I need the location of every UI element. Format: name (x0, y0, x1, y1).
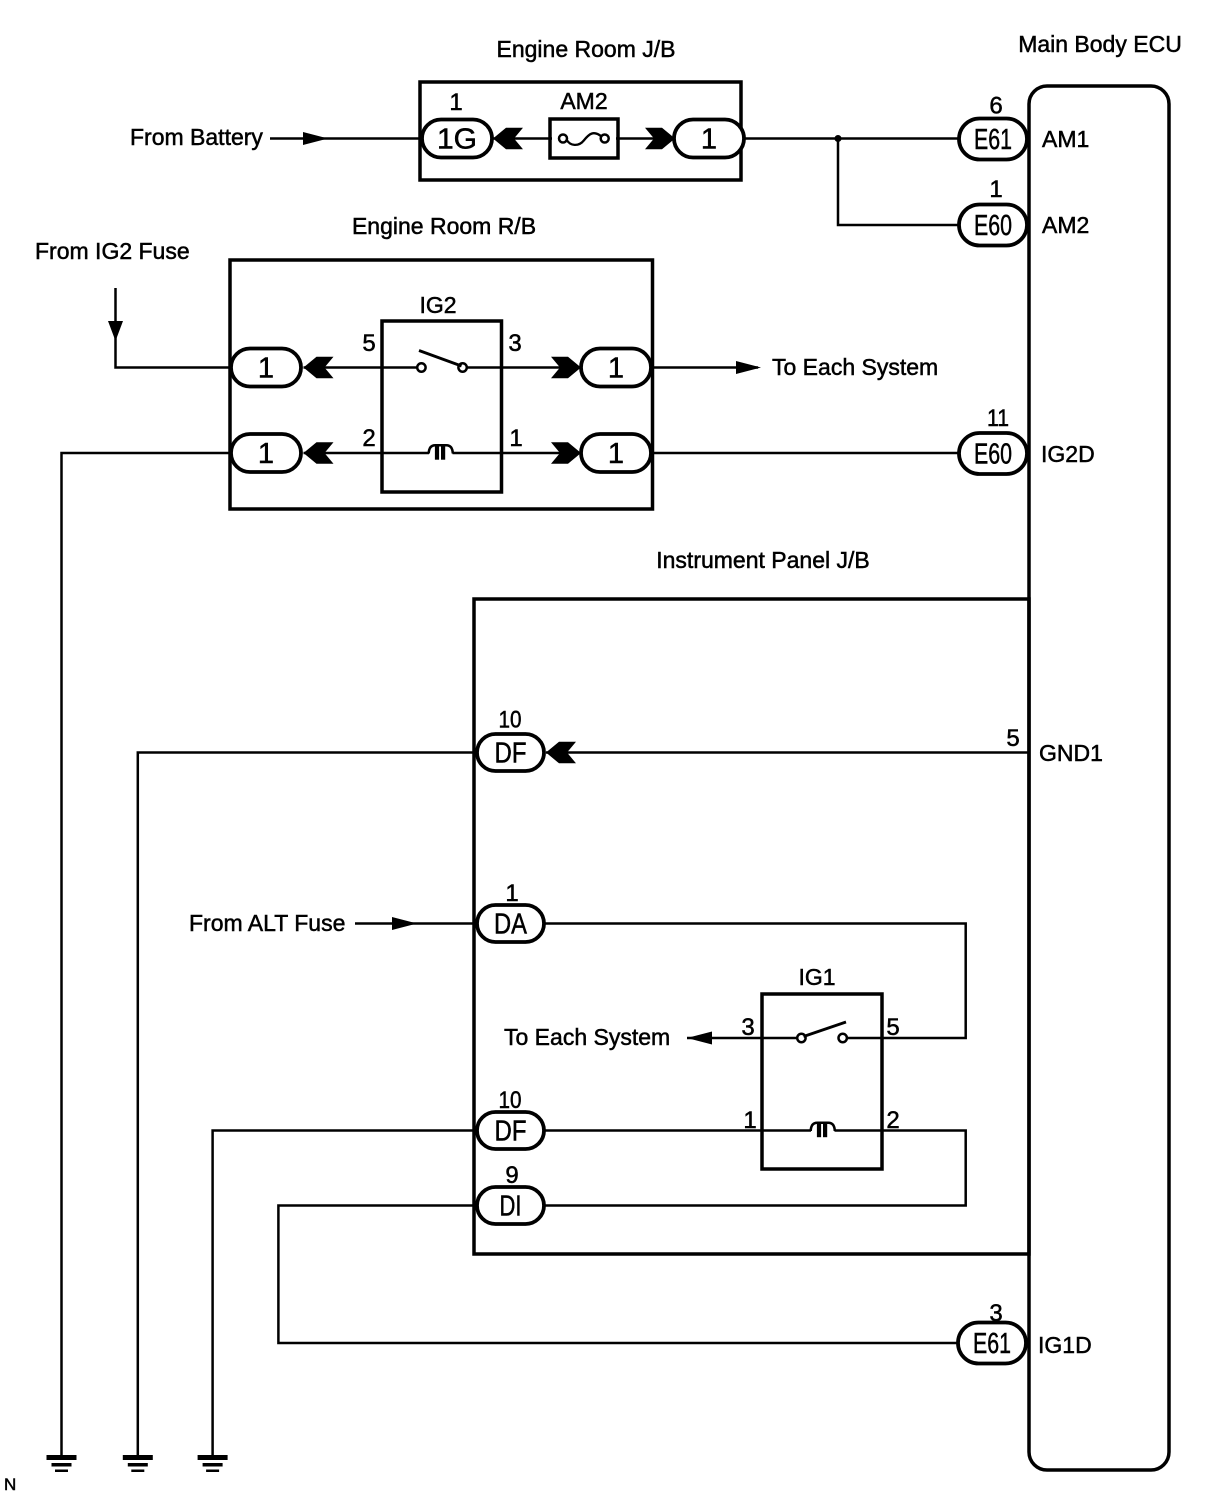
arrow From Battery (303, 132, 328, 145)
svg-text:1: 1 (258, 438, 274, 470)
wire to IG2 box coil (304, 452, 383, 455)
connector oval DF 10 (477, 1112, 544, 1149)
svg-text:Engine Room R/B: Engine Room R/B (352, 213, 536, 239)
connector oval 1 (R/B switch row right) (581, 349, 651, 387)
svg-text:5: 5 (1006, 725, 1019, 752)
wire ground3 to DF2 row (213, 1131, 477, 1456)
svg-text:DI: DI (500, 1191, 522, 1223)
connector oval 1 (Engine Room J/B right) (674, 120, 744, 158)
svg-text:IG2D: IG2D (1041, 441, 1095, 467)
arrow into left oval switch row (304, 357, 334, 379)
fuse AM2 (550, 119, 618, 158)
connector oval 1 (R/B coil row right) (581, 434, 651, 472)
svg-text:11: 11 (987, 405, 1009, 432)
svg-text:1: 1 (505, 880, 518, 907)
connector oval DF GND1 (477, 734, 544, 771)
svg-text:2: 2 (362, 425, 375, 452)
svg-text:1: 1 (701, 124, 717, 156)
wire From ALT Fuse to DA (355, 922, 477, 925)
wire From IG2 Fuse down (116, 288, 232, 368)
svg-text:DF: DF (495, 1116, 527, 1148)
svg-text:Main Body ECU: Main Body ECU (1018, 31, 1182, 57)
connector oval DA (477, 905, 544, 942)
svg-text:1: 1 (608, 438, 624, 470)
wire IG2 coil to right oval (502, 452, 582, 455)
relay IG2 switch contacts (382, 351, 502, 372)
wire 1G to fuse AM2 (492, 137, 552, 140)
svg-text:Instrument Panel J/B: Instrument Panel J/B (656, 547, 870, 573)
svg-text:9: 9 (505, 1162, 518, 1189)
connector oval E61 AM1 (959, 119, 1027, 160)
svg-text:1: 1 (989, 176, 1002, 203)
connector oval E60 AM2 (959, 205, 1027, 246)
wire DI to E61 IG1D (278, 1206, 958, 1344)
svg-text:DA: DA (494, 909, 528, 941)
svg-text:IG2: IG2 (419, 292, 456, 318)
svg-text:5: 5 (362, 330, 375, 357)
arrow into oval 1 (645, 128, 675, 150)
arrow From ALT Fuse (392, 917, 417, 930)
svg-text:IG1D: IG1D (1038, 1332, 1092, 1358)
svg-text:1: 1 (743, 1107, 756, 1134)
svg-text:10: 10 (499, 707, 522, 734)
relay IG1 switch contacts (762, 1022, 882, 1042)
Instrument Panel J/B box (474, 599, 1029, 1254)
svg-text:To Each System: To Each System (772, 354, 938, 380)
relay IG1 box (762, 994, 882, 1169)
connector oval 1G (422, 120, 492, 158)
svg-text:E61: E61 (973, 1328, 1011, 1360)
svg-text:1: 1 (449, 89, 462, 116)
wire oval 1 to E61 (744, 137, 959, 140)
wire DF to ECU GND1 (546, 751, 1029, 754)
connector oval E61 IG1D (958, 1323, 1026, 1364)
svg-text:Engine Room J/B: Engine Room J/B (497, 36, 676, 62)
svg-text:3: 3 (989, 1300, 1002, 1327)
relay IG2 box (382, 321, 502, 492)
svg-text:From Battery: From Battery (130, 124, 263, 150)
svg-text:To Each System: To Each System (504, 1024, 670, 1050)
svg-text:From IG2 Fuse: From IG2 Fuse (35, 238, 190, 264)
wire From Battery to 1G (270, 137, 422, 140)
svg-text:3: 3 (741, 1014, 754, 1041)
relay IG2 coil (382, 445, 502, 459)
ground G3 (198, 1455, 228, 1472)
wire junction down to AM2 row (838, 139, 959, 226)
wire coil row oval to E60 IG2D (651, 452, 959, 455)
arrow To Each System right (736, 361, 761, 374)
Engine Room J/B box (420, 82, 741, 180)
ground G2 (123, 1455, 153, 1472)
svg-text:N: N (4, 1475, 16, 1494)
svg-text:3: 3 (508, 330, 521, 357)
Main Body ECU box U1 (1029, 86, 1169, 1470)
arrow into left oval coil row (304, 442, 334, 464)
svg-text:From ALT Fuse: From ALT Fuse (189, 910, 345, 936)
svg-text:1: 1 (258, 353, 274, 385)
svg-text:E60: E60 (974, 439, 1012, 471)
wire to IG2 box (304, 366, 383, 369)
junction node (835, 135, 842, 142)
svg-text:1G: 1G (437, 124, 477, 156)
wire IG2 to right oval switch row (502, 366, 582, 369)
ground G1 (47, 1455, 77, 1472)
svg-text:IG1: IG1 (798, 964, 835, 990)
svg-text:AM1: AM1 (1042, 126, 1089, 152)
relay IG1 coil (762, 1123, 882, 1138)
wire fuse to oval 1 (616, 137, 676, 140)
arrow into DF (546, 742, 576, 764)
connector oval 1 (R/B coil row left) (231, 434, 301, 472)
wire DA to IG1 pin5 (544, 924, 966, 1039)
svg-text:1: 1 (608, 353, 624, 385)
svg-text:AM2: AM2 (1042, 212, 1089, 238)
connector oval 1 (R/B switch row left) (231, 349, 301, 387)
wire ground1 to coil row left oval (62, 453, 232, 1455)
arrow down From IG2 Fuse (108, 321, 123, 341)
connector oval E60 IG2D (959, 433, 1027, 474)
Engine Room R/B box (230, 260, 653, 509)
wire IG1 coil pin2 down to DI row (544, 1131, 966, 1206)
svg-text:10: 10 (499, 1087, 522, 1114)
connector oval DI (477, 1187, 544, 1224)
svg-text:GND1: GND1 (1039, 740, 1103, 766)
svg-text:DF: DF (495, 738, 527, 770)
svg-text:E61: E61 (974, 124, 1012, 156)
arrow To Each System left (687, 1032, 712, 1045)
svg-text:1: 1 (509, 425, 522, 452)
arrow into 1G (493, 128, 523, 150)
svg-text:AM2: AM2 (560, 88, 607, 114)
svg-text:E60: E60 (974, 210, 1012, 242)
svg-text:6: 6 (989, 93, 1002, 120)
wire to To Each System (651, 366, 758, 369)
arrow into right oval coil row (551, 442, 581, 464)
arrow into right oval switch row (551, 357, 581, 379)
wire ground2 to DF GND1 row (138, 753, 477, 1456)
wire arrow to IG1 (687, 1037, 762, 1040)
svg-text:5: 5 (886, 1014, 899, 1041)
wire DF2 to IG1 coil pin1 (544, 1129, 762, 1132)
